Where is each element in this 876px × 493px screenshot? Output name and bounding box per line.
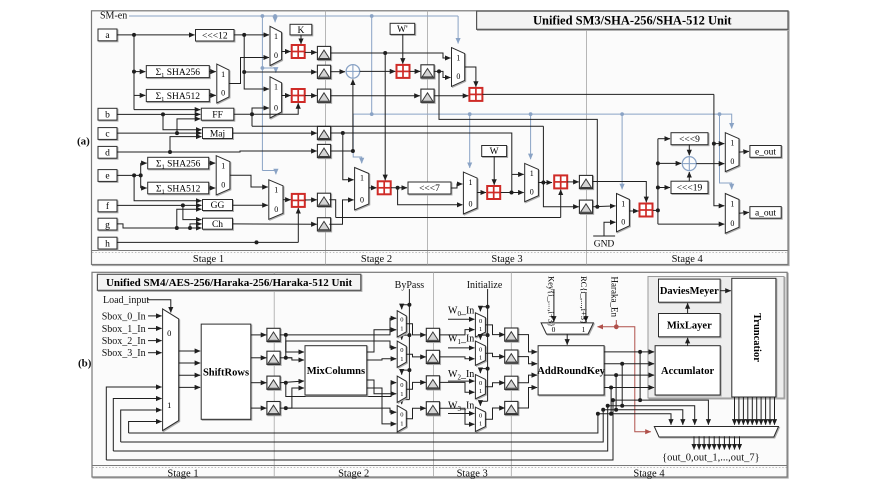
register b-col3-4 xyxy=(505,401,518,414)
junction bundle rot19 xyxy=(656,186,660,190)
wire smux3 to reg xyxy=(406,382,426,389)
mux sigma-e xyxy=(216,156,230,195)
register a-col1-6 xyxy=(317,193,330,206)
wire reg to wmux4 input 1 xyxy=(440,408,475,424)
register a-col1-3 xyxy=(317,89,330,102)
wire Sbox input y=316 xyxy=(148,315,162,317)
wire sigma256e to muxE xyxy=(209,162,216,164)
junction stair 1 xyxy=(638,398,642,402)
wire wmux4 to reg col3 xyxy=(485,408,504,419)
junction feedback 4 xyxy=(596,412,600,416)
svg-text:0: 0 xyxy=(360,196,364,205)
wire FF branch to A2 bottom xyxy=(252,103,298,114)
blue wire select M7 xyxy=(621,114,623,189)
wire ARK out2 to output mux xyxy=(622,364,695,425)
wire truncatior out 6 xyxy=(756,397,758,425)
svg-text:1: 1 xyxy=(274,83,278,92)
junction c xyxy=(175,131,179,135)
wire out arrow 4 xyxy=(708,436,710,449)
svg-text:0: 0 xyxy=(274,205,278,214)
rotate box &lt;&lt;&lt;7 xyxy=(408,182,451,194)
svg-text:0: 0 xyxy=(730,219,734,228)
stage label band (b) xyxy=(92,465,787,467)
junction T1 branch xyxy=(712,142,716,146)
wire truncatior out 8 xyxy=(765,397,767,425)
box W xyxy=(482,146,507,158)
wire bundle to &lt;&lt;&lt;9 xyxy=(658,138,670,140)
box Maj xyxy=(203,128,233,140)
junction feedback 2 xyxy=(606,404,610,408)
wire e to sigma256e xyxy=(141,162,147,164)
mux MT xyxy=(452,48,465,87)
svg-text:RC{i_,...,i+3}: RC{i_,...,i+3} xyxy=(579,276,589,324)
register b-col3-1 xyxy=(505,328,518,341)
wire d to reg5 xyxy=(117,151,317,152)
wire mux to ShiftRows y=387 xyxy=(179,386,201,388)
wire A5 to &lt;&lt;&lt;7 xyxy=(391,187,407,189)
wire reg2 bypass to smux2 input 0 xyxy=(286,341,396,358)
wire A5 branch to M5 input 0 xyxy=(398,188,463,205)
W mux wmux4 xyxy=(475,407,485,431)
register a-col1-2 xyxy=(317,65,330,78)
svg-text:0: 0 xyxy=(469,200,473,209)
wire T1 to M8 input 1 xyxy=(714,143,724,145)
wire feedback return x=121 xyxy=(121,410,162,442)
red wire to keymux select xyxy=(598,326,617,328)
blue wire select MT xyxy=(457,16,459,44)
stage divider b2/b3 xyxy=(432,272,434,477)
svg-text:b: b xyxy=(105,110,110,120)
wire Initialize select wmux2 xyxy=(480,335,487,340)
wire g to Ch mid input xyxy=(190,224,202,228)
rotate box &lt;&lt;&lt;9 xyxy=(671,133,708,145)
wire smux4 to reg xyxy=(406,408,426,418)
svg-text:1: 1 xyxy=(400,326,403,333)
adder A3 xyxy=(292,194,305,207)
wire sigma512a to muxA xyxy=(209,94,216,96)
wire feedback return x=129 xyxy=(129,422,162,434)
wire muxA out to M1 input 0 xyxy=(229,58,269,84)
rotate box &lt;&lt;&lt;12 xyxy=(196,30,235,42)
wire Sbox input y=328 xyxy=(148,327,162,329)
wire X1 to A4 xyxy=(360,70,396,72)
svg-text:Sbox_2_In: Sbox_2_In xyxy=(102,336,146,347)
junction b reg3 xyxy=(284,381,288,385)
svg-text:MixLayer: MixLayer xyxy=(667,321,712,332)
wire smux2 to reg xyxy=(406,354,426,357)
wire M3 to A3 xyxy=(283,199,291,201)
wire f to Ch top input xyxy=(183,205,202,219)
wire trunk3 horizontal xyxy=(252,125,543,127)
svg-text:Ch: Ch xyxy=(212,220,223,230)
wire Ch to reg7 xyxy=(233,223,317,225)
wire reg1 to MixColumns in1 xyxy=(286,335,304,352)
svg-text:1: 1 xyxy=(621,199,625,208)
svg-text:g: g xyxy=(105,220,110,230)
wire d to Maj bottom input xyxy=(170,137,202,152)
wire reg a-col2-2 to AT left xyxy=(434,95,468,97)
wire Initialize select wmux4 xyxy=(480,401,487,406)
svg-text:1: 1 xyxy=(479,388,482,395)
wire W3 to wmux input 0 xyxy=(448,413,474,415)
wire ARK out4 to output mux xyxy=(611,388,671,425)
register b-col1-1 xyxy=(267,328,280,341)
register a-col1-1 xyxy=(317,46,330,59)
wire reg2 to MixColumns in2 xyxy=(286,358,304,360)
wire ShiftRows out y=408 xyxy=(251,407,266,409)
wire ARK out3 feedback xyxy=(121,410,616,442)
register b-col1-4 xyxy=(267,402,280,415)
wire trunk3 vertical to reg a-col3-2 xyxy=(543,126,578,207)
wire e bundle xyxy=(140,163,142,188)
wire A3 to reg6 xyxy=(305,199,317,201)
svg-text:1: 1 xyxy=(400,391,403,398)
svg-text:1: 1 xyxy=(221,162,225,171)
svg-text:e_out: e_out xyxy=(755,148,776,158)
svg-text:1: 1 xyxy=(469,178,473,187)
svg-text:Stage 2: Stage 2 xyxy=(361,254,392,265)
wire reg to M7 input 1 xyxy=(593,205,616,208)
wire Load_input to mux select xyxy=(148,300,171,313)
wire bundle to X2 left xyxy=(658,162,681,164)
wire truncatior out 4 xyxy=(747,397,749,425)
wire reg col3 to ARK in2 xyxy=(518,357,538,364)
wire reg2 out xyxy=(280,357,292,359)
box MixLayer xyxy=(659,314,721,337)
wire to reg2 xyxy=(244,71,317,73)
box FF xyxy=(201,108,234,120)
svg-text:1: 1 xyxy=(730,199,734,208)
adder A1 (K) xyxy=(292,45,305,58)
mux sigma-a xyxy=(217,64,229,103)
wire A1 to reg1 xyxy=(305,51,317,53)
small mux smux2 xyxy=(397,341,406,367)
wire ARK out3 to Accumlator xyxy=(604,374,654,376)
junction b reg1 xyxy=(284,333,288,337)
wire out arrow 6 xyxy=(718,436,720,449)
svg-text:1: 1 xyxy=(456,53,460,62)
wire W0 to wmux input 0 xyxy=(448,318,474,320)
svg-text:Stage 1: Stage 1 xyxy=(167,468,198,479)
wire b to FF xyxy=(117,113,200,115)
svg-text:Key{i_,...,i+3}: Key{i_,...,i+3} xyxy=(547,276,557,327)
junction stair 3 xyxy=(614,408,618,412)
wire ARK out1 to Accumlator xyxy=(604,351,654,353)
junction Initialize 3 xyxy=(486,367,490,371)
wire h to A3 bottom xyxy=(297,208,299,242)
junction after &lt;&lt;&lt;12 xyxy=(242,33,246,37)
wire reg3 bypass to smux3 input 0 xyxy=(286,383,396,397)
junction bundle bottom xyxy=(656,208,660,212)
wire Key input xyxy=(553,289,555,322)
mux M9 xyxy=(725,194,739,234)
blue junction I xyxy=(718,112,722,116)
stage divider b1/b2 xyxy=(273,272,275,477)
junction a sigma256 xyxy=(132,70,136,74)
junction Initialize 2 xyxy=(486,333,490,337)
wire ARK out1 feedback xyxy=(106,400,640,460)
wire up to A7 bottom xyxy=(560,190,562,218)
svg-text:Stage 2: Stage 2 xyxy=(338,468,369,479)
wire reg col3 to ARK in3 xyxy=(518,375,538,383)
junction ARK out2 xyxy=(620,362,624,366)
register a-col1-7 xyxy=(317,218,330,231)
wire ByPass select smux3 xyxy=(402,370,410,375)
input box d xyxy=(98,146,117,158)
wire ShiftRows out y=358 xyxy=(251,357,266,359)
wire K to A1 xyxy=(300,35,302,44)
wire FF out xyxy=(234,113,252,115)
junction b xyxy=(161,112,165,116)
svg-text:GND: GND xyxy=(594,240,615,250)
svg-text:0: 0 xyxy=(479,413,482,420)
junction ByPass 1 xyxy=(407,303,411,307)
part (b) outer frame xyxy=(92,272,787,477)
svg-text:<<<7: <<<7 xyxy=(419,184,440,194)
blue junction B xyxy=(273,14,277,18)
wire reg1 bypass to smux1 input 0 xyxy=(280,318,396,335)
box Accumlator xyxy=(655,346,720,395)
blue wire select M5 xyxy=(469,114,471,168)
wire A6 to M6 input 0 xyxy=(512,192,524,194)
svg-text:1: 1 xyxy=(479,420,482,427)
W mux wmux3 xyxy=(475,375,485,399)
blue wire select M2 xyxy=(262,68,275,73)
svg-text:h: h xyxy=(105,239,110,249)
junction reg1 branch xyxy=(383,51,387,55)
blue wire select M8 xyxy=(720,114,732,128)
svg-text:Haraka_En: Haraka_En xyxy=(610,277,620,318)
wire reg to A8 top xyxy=(593,182,647,203)
blue wire select M3 xyxy=(262,171,276,175)
wire trunk4 to M6 input 1 xyxy=(512,173,524,175)
junction e branch xyxy=(132,173,136,177)
svg-text:1: 1 xyxy=(730,139,734,148)
wire wmux2 to reg col3 xyxy=(485,353,504,356)
mux M5 xyxy=(463,172,477,214)
svg-text:Unified SM4/AES-256/Haraka-256: Unified SM4/AES-256/Haraka-256/Haraka-51… xyxy=(106,277,353,289)
svg-text:0: 0 xyxy=(479,380,482,387)
wire Sbox input y=353 xyxy=(148,352,162,354)
wire c to FF bottom input xyxy=(177,119,200,133)
wire AT out horizontal xyxy=(482,93,714,95)
svg-text:e: e xyxy=(105,172,109,182)
wire b to Maj top input xyxy=(163,114,202,129)
input box h xyxy=(98,237,117,249)
svg-text:Stage 3: Stage 3 xyxy=(491,254,522,265)
wire out arrow 7 xyxy=(723,436,725,449)
junction M6 out xyxy=(541,181,545,185)
svg-text:0: 0 xyxy=(456,72,460,81)
adder A5 xyxy=(378,181,391,194)
blue junction A xyxy=(261,14,265,18)
junction Initialize 1 xyxy=(486,305,490,309)
svg-text:1: 1 xyxy=(530,169,534,178)
wire truncatior out 9 xyxy=(769,397,771,425)
svg-text:Stage 4: Stage 4 xyxy=(633,468,665,479)
wire reg to wmux3 input 1 xyxy=(440,382,475,392)
wire ARK out4 feedback xyxy=(129,414,611,433)
wire a to &lt;&lt;&lt;12 xyxy=(117,34,195,36)
box K xyxy=(290,24,312,36)
wire branch down to A5 top xyxy=(384,53,386,180)
xor X2 xyxy=(682,157,696,171)
blue junction H xyxy=(620,112,624,116)
junction FF out xyxy=(250,112,254,116)
svg-text:GG: GG xyxy=(211,201,225,211)
svg-text:Truncatior: Truncatior xyxy=(751,313,762,362)
junction stair 4 xyxy=(609,412,613,416)
wire W1 to wmux input 0 xyxy=(448,347,474,349)
wire g to GG bottom input xyxy=(177,209,202,228)
wire GND to M7 input 0 xyxy=(604,222,616,236)
wire reg3 to MixColumns in3 xyxy=(280,381,304,383)
svg-text:Accumlator: Accumlator xyxy=(661,366,714,377)
svg-text:1: 1 xyxy=(360,173,364,182)
key/RC select mux xyxy=(541,323,593,334)
svg-text:1: 1 xyxy=(167,400,171,410)
wire up to X1 bottom xyxy=(352,79,354,151)
wire reg col3 to ARK in1 xyxy=(518,335,538,352)
wire Maj to reg4 xyxy=(233,132,317,134)
wire truncatior out 1 xyxy=(734,397,736,425)
wire A4 to reg a-col2-1 xyxy=(410,70,421,72)
junction g xyxy=(175,226,179,230)
wire h horizontal xyxy=(117,241,298,243)
svg-text:0: 0 xyxy=(167,328,171,338)
wire ByPass select smux4 xyxy=(402,400,410,405)
input box g xyxy=(98,218,117,230)
wire sigma256a to muxA xyxy=(209,71,216,73)
input box a xyxy=(98,29,117,41)
wire MixLayer to DaviesMeyer xyxy=(687,303,689,313)
svg-text:1: 1 xyxy=(400,421,403,428)
wire A2 to reg3 xyxy=(305,95,317,97)
svg-text:Initialize: Initialize xyxy=(467,280,503,291)
box MixColumns xyxy=(305,346,367,395)
wire A6 out xyxy=(501,192,512,194)
input box f xyxy=(98,200,117,212)
wire bundle to M9 input 0 xyxy=(658,223,724,225)
wire out arrow 2 xyxy=(698,436,700,449)
wire ARK out1 to output mux xyxy=(640,352,708,425)
svg-text:0: 0 xyxy=(400,347,403,354)
register b-col2-3 xyxy=(426,376,439,389)
wire truncatior out 5 xyxy=(751,397,753,425)
wire W to A6 top xyxy=(493,157,495,185)
register a-col2-1 xyxy=(421,65,434,78)
svg-text:<<<19: <<<19 xyxy=(677,184,703,194)
svg-text:MixColumns: MixColumns xyxy=(307,366,365,377)
wire M4 to A5 xyxy=(369,187,377,189)
wire ShiftRows out y=335 xyxy=(251,334,266,336)
blue junction D xyxy=(261,66,265,70)
register b-col2-1 xyxy=(426,328,439,341)
wire wmux1 to reg col3 xyxy=(485,325,504,335)
blue wire select M6 xyxy=(530,114,532,159)
wire truncatior out 10 xyxy=(774,397,776,425)
red wire Haraka_En drop xyxy=(615,320,617,327)
blue junction G xyxy=(529,112,533,116)
svg-text:W0_In: W0_In xyxy=(448,306,474,318)
wire MC out4 to smux4 input 1 xyxy=(367,388,396,424)
wire e to GG top input xyxy=(134,175,201,200)
sigma box SHA256 (a-path) xyxy=(146,66,209,79)
svg-text:1: 1 xyxy=(582,325,586,334)
wire ARK out3 to output mux xyxy=(616,375,683,425)
svg-text:0: 0 xyxy=(400,316,403,323)
wire truncatior out 7 xyxy=(760,397,762,425)
wire out arrow 5 xyxy=(713,436,715,449)
wire DaviesMeyer to Truncatior xyxy=(720,290,731,292)
junction A6 out xyxy=(510,191,514,195)
wire GG to M3 input 0 xyxy=(233,204,268,206)
wire M9 to a_out xyxy=(739,211,749,214)
mux M2 xyxy=(270,77,282,118)
svg-text:W1_In: W1_In xyxy=(448,334,474,346)
svg-text:1: 1 xyxy=(221,70,225,79)
svg-text:W': W' xyxy=(397,25,408,35)
box Truncatior xyxy=(732,278,776,397)
wire reg to wmux1 input 1 xyxy=(440,330,475,335)
wire a to sigma512 xyxy=(134,94,145,96)
svg-text:0: 0 xyxy=(221,89,225,98)
svg-text:0: 0 xyxy=(400,382,403,389)
wire ByPass select smux2 xyxy=(402,335,410,340)
box GG xyxy=(203,200,233,212)
register a-col1-5 xyxy=(317,144,330,157)
register b-col1-2 xyxy=(267,351,280,364)
svg-text:{out_0,out_1,...,out_7}: {out_0,out_1,...,out_7} xyxy=(662,453,760,464)
wire keymux to AddRoundKey xyxy=(566,334,568,345)
big input mux (b) xyxy=(163,309,179,431)
input box b xyxy=(98,108,117,120)
wire A8 out xyxy=(653,209,658,211)
junction e xyxy=(139,173,143,177)
svg-text:1: 1 xyxy=(274,32,278,41)
wire sigma512e to muxE xyxy=(209,187,216,189)
register a-col1-4 xyxy=(317,126,330,139)
wire MC out1 to smux1 input 1 xyxy=(367,330,396,352)
wire Initialize vertical xyxy=(487,289,489,401)
sigma box SHA512 (e-path) xyxy=(148,182,209,195)
junction ByPass 3 xyxy=(407,368,411,372)
wire ByPass vertical xyxy=(408,289,410,400)
junction ARK out3 xyxy=(614,373,618,377)
wire mux to ShiftRows y=375 xyxy=(179,374,201,376)
wire out arrow 1 xyxy=(693,436,695,449)
blue junction E xyxy=(370,112,374,116)
register a-col3-2 xyxy=(579,200,592,213)
junction ARK out4 xyxy=(609,386,613,390)
svg-text:SM-en: SM-en xyxy=(100,11,127,22)
junction feedback 1 xyxy=(611,398,615,402)
box ShiftRows xyxy=(201,324,251,419)
small mux smux1 xyxy=(397,311,406,337)
wire M2 to A2 xyxy=(282,95,291,97)
svg-text:Maj: Maj xyxy=(210,129,225,139)
svg-text:Stage 4: Stage 4 xyxy=(672,254,704,265)
wire c to Maj xyxy=(117,132,202,134)
adder AT xyxy=(469,88,482,101)
svg-text:Unified SM3/SHA-256/SHA-512 Un: Unified SM3/SHA-256/SHA-512 Unit xyxy=(533,13,732,27)
wire reg4 to MixColumns in4 xyxy=(286,388,304,408)
adder A8 xyxy=(640,204,653,217)
svg-text:1: 1 xyxy=(479,326,482,333)
wire ARK out2 feedback xyxy=(113,406,622,451)
register a-col3-1 xyxy=(579,175,592,188)
svg-text:d: d xyxy=(105,149,110,159)
